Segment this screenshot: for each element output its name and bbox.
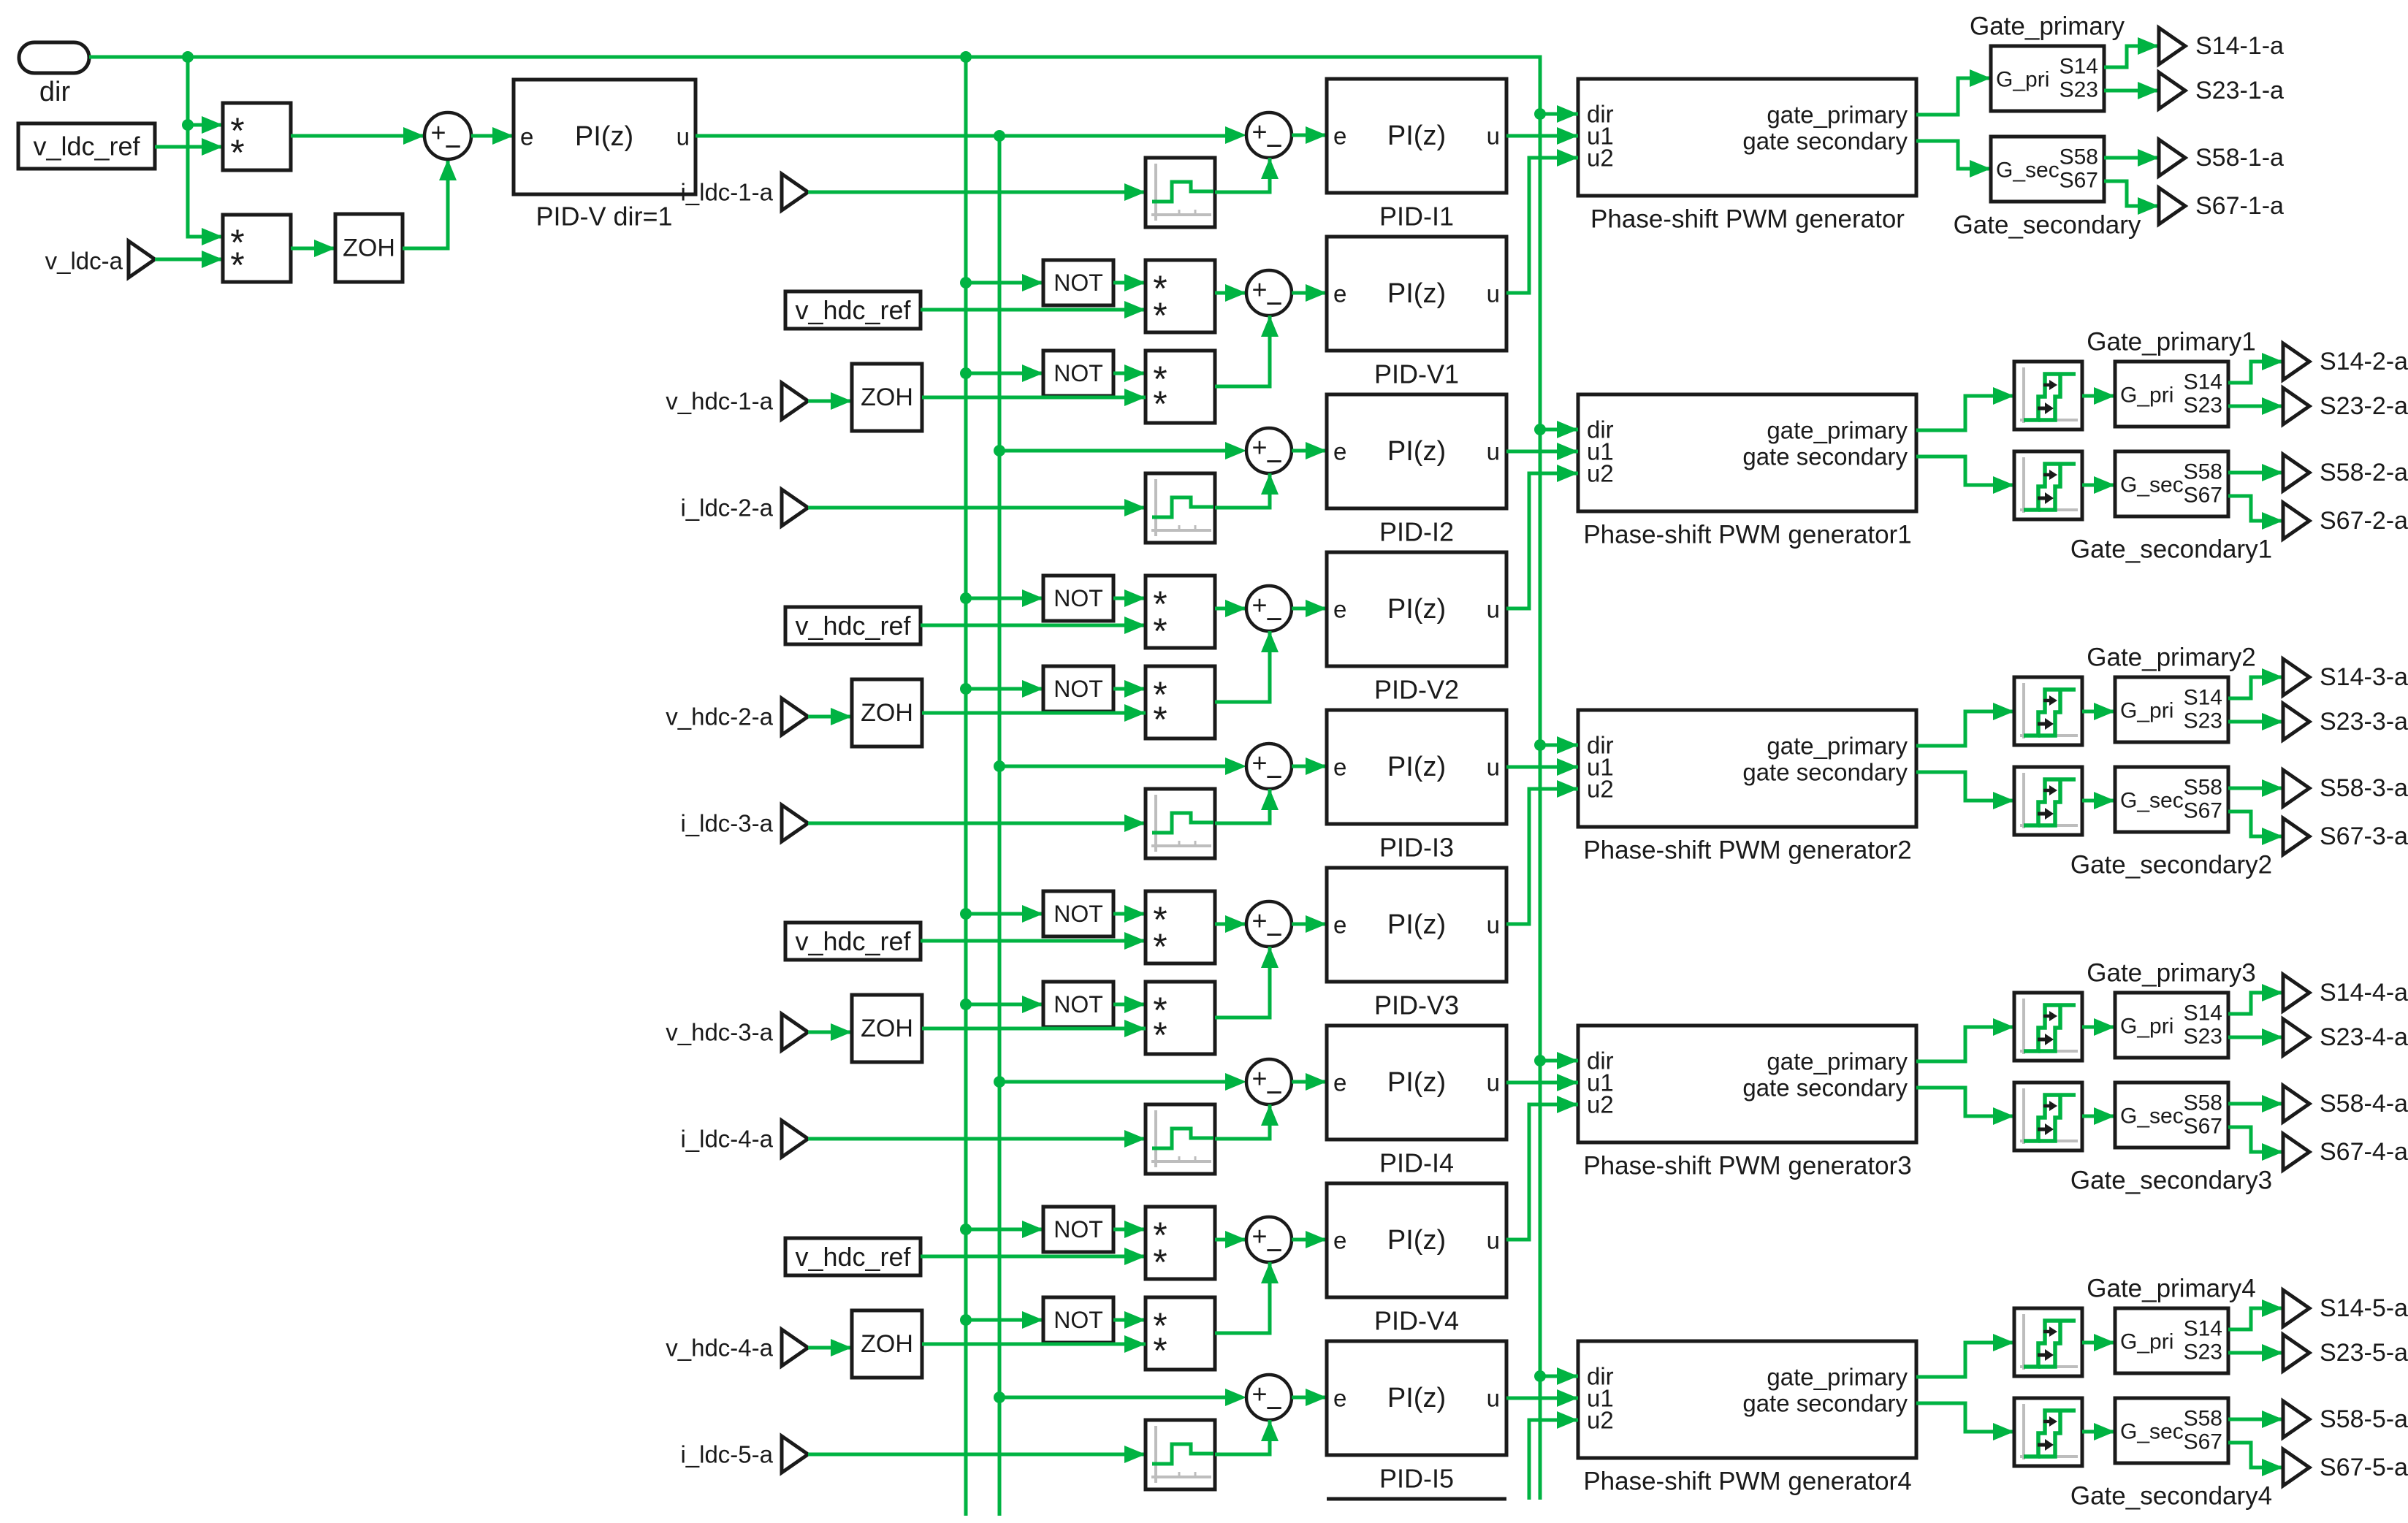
output triangle S14-4-a	[2283, 974, 2309, 1011]
wire sum to PID-V3 e	[1292, 915, 1327, 933]
controller PID-I2 (PI(z))	[1327, 394, 1506, 508]
subsystem Gate_secondary1 (G_sec)	[2115, 451, 2228, 516]
label v_hdc-1-a	[666, 388, 773, 415]
svg-text:*: *	[1153, 699, 1167, 740]
junction u-bus to sum-I4	[994, 1076, 1005, 1088]
svg-text:S67: S67	[2184, 799, 2222, 823]
arrowhead into product 2	[202, 228, 223, 245]
relay block 5a	[2014, 1308, 2082, 1376]
block Phase-shift PWM generator2	[1578, 710, 1916, 827]
svg-text:S23: S23	[2184, 1025, 2222, 1049]
wire productV1b to sum-V1 minus	[1215, 316, 1279, 386]
wire u-bus to sum-I2	[999, 449, 1225, 453]
svg-text:*: *	[1153, 383, 1167, 424]
svg-text:NOT: NOT	[1053, 360, 1103, 386]
label Phase-shift PWM generator2	[1583, 836, 1911, 865]
svg-text:Gate_secondary2: Gate_secondary2	[2070, 851, 2272, 879]
svg-text:G_pri: G_pri	[2120, 699, 2173, 723]
subsystem Gate_secondary3 (G_sec)	[2115, 1083, 2228, 1148]
svg-text:PID-I3: PID-I3	[1379, 833, 1454, 863]
wire relay 3b to G_sec	[2082, 792, 2115, 809]
label PID-I1	[1379, 202, 1454, 232]
svg-text:PID-I2: PID-I2	[1379, 517, 1454, 547]
product block V3a	[1146, 891, 1215, 963]
zero-order hold 4	[852, 1310, 922, 1378]
label Gate_secondary4	[2070, 1482, 2272, 1511]
input triangle v_hdc-2-a	[782, 698, 808, 735]
wire v_hdc_ref to productV3a	[921, 932, 1146, 950]
wire NOT-dir vertical bus	[964, 57, 968, 1516]
wire S14 out 2	[2228, 353, 2283, 383]
output triangle S14-3-a	[2283, 659, 2309, 695]
wire u-bus to sum-I3	[999, 765, 1225, 768]
controller PID-V2 (PI(z))	[1327, 552, 1506, 666]
svg-text:v_ldc_ref: v_ldc_ref	[33, 131, 140, 161]
wire S67 out 1	[2104, 181, 2159, 215]
svg-text:u: u	[1487, 754, 1500, 781]
svg-text:v_hdc_ref: v_hdc_ref	[795, 1242, 911, 1272]
input triangle i_ldc-5-a	[782, 1436, 808, 1473]
svg-text:v_ldc-a: v_ldc-a	[45, 248, 123, 275]
svg-text:−: −	[1265, 1077, 1282, 1109]
label * productV1a bottom	[1153, 295, 1167, 336]
svg-text:e: e	[1333, 596, 1346, 623]
svg-text:gate secondary: gate secondary	[1742, 759, 1908, 786]
svg-text:gate_primary: gate_primary	[1767, 102, 1908, 129]
output triangle S23-2-a	[2283, 388, 2309, 424]
wire gate secondary to relay 5b	[1916, 1403, 2014, 1440]
label S23-3-a	[2320, 708, 2408, 736]
input triangle v_ldc-a	[129, 241, 155, 278]
wire productV1a to sum-V1	[1215, 284, 1246, 302]
label * productV2b bottom	[1153, 699, 1167, 740]
input triangle i_ldc-1-a	[782, 174, 808, 210]
wire step block to sum-I2 minus	[1215, 473, 1279, 508]
wire relay 4b to G_sec	[2082, 1107, 2115, 1125]
subsystem Gate_primary1 (G_pri)	[2115, 362, 2228, 427]
wire ZOH4 to productV4b	[922, 1335, 1146, 1353]
sum for PID-I3	[1246, 744, 1292, 793]
step scope block I4	[1146, 1104, 1215, 1174]
svg-text:Gate_primary3: Gate_primary3	[2087, 959, 2255, 988]
junction u-bus to sum-I3	[994, 760, 1005, 772]
svg-text:Phase-shift PWM generator2: Phase-shift PWM generator2	[1583, 836, 1911, 865]
label Gate_primary	[1970, 12, 2125, 41]
svg-text:S67: S67	[2184, 1430, 2222, 1454]
svg-text:S23-2-a: S23-2-a	[2320, 392, 2408, 420]
svg-text:G_sec: G_sec	[2120, 1104, 2184, 1129]
label PID-I4	[1379, 1148, 1454, 1178]
label S67-1-a	[2195, 192, 2284, 220]
arrowhead into sum-I1	[1225, 126, 1246, 144]
label * in product2 top	[230, 222, 244, 263]
wire S67 out 5	[2228, 1443, 2283, 1476]
svg-text:v_hdc_ref: v_hdc_ref	[795, 611, 911, 641]
svg-text:S67-5-a: S67-5-a	[2320, 1454, 2408, 1481]
junction master u bus tap	[994, 130, 1005, 142]
product block V1a	[1146, 260, 1215, 332]
label * in product2 bottom	[230, 245, 244, 286]
arrowhead into sum-I2	[1225, 442, 1246, 459]
label S58-5-a	[2320, 1405, 2408, 1433]
wire PID-I4 u to Phase-shift PWM generator3 u1	[1506, 1074, 1578, 1091]
svg-text:i_ldc-4-a: i_ldc-4-a	[680, 1126, 773, 1153]
wire PID-V4 u to Phase-shift PWM generator3 u2	[1506, 1096, 1578, 1240]
label * productV1b bottom	[1153, 383, 1167, 424]
arrowhead into sum-I4	[1225, 1073, 1246, 1091]
svg-text:u2: u2	[1587, 776, 1614, 803]
svg-text:v_hdc_ref: v_hdc_ref	[795, 926, 911, 956]
label Gate_secondary	[1954, 211, 2141, 240]
svg-text:Phase-shift PWM generator3: Phase-shift PWM generator3	[1583, 1152, 1911, 1180]
label Gate_primary4	[2087, 1275, 2255, 1303]
label i_ldc-2-a	[680, 495, 773, 522]
label S14-4-a	[2320, 979, 2408, 1007]
svg-text:i_ldc-1-a: i_ldc-1-a	[680, 179, 773, 206]
relay block 5b	[2014, 1398, 2082, 1466]
svg-text:Gate_primary2: Gate_primary2	[2087, 644, 2255, 672]
svg-text:−: −	[1265, 919, 1282, 951]
wire sum to PID-V4 e	[1292, 1231, 1327, 1248]
subsystem Gate_primary4 (G_pri)	[2115, 1308, 2228, 1373]
arrowhead into sum-I5	[1225, 1389, 1246, 1406]
step scope block I5	[1146, 1420, 1215, 1489]
wire gate secondary to relay 3b	[1916, 772, 2014, 809]
svg-text:v_hdc-1-a: v_hdc-1-a	[666, 388, 773, 415]
input triangle v_hdc-3-a	[782, 1014, 808, 1050]
svg-text:S14: S14	[2184, 370, 2222, 394]
label Gate_secondary3	[2070, 1167, 2272, 1195]
wire u-bus to sum-I4	[999, 1080, 1225, 1084]
wire dir-bus to NOT1b	[966, 364, 1043, 382]
label * productV3a top	[1153, 899, 1167, 940]
svg-text:e: e	[1333, 1069, 1346, 1096]
wire relay 5b to G_sec	[2082, 1423, 2115, 1440]
input triangle v_hdc-1-a	[782, 383, 808, 419]
wire S23 out 2	[2228, 397, 2283, 415]
wire productV3a to sum-V3	[1215, 915, 1246, 933]
label S23-1-a	[2195, 77, 2284, 104]
label * productV4b top	[1153, 1305, 1167, 1346]
svg-text:−: −	[1265, 1234, 1282, 1267]
wire gate_primary to relay 3a	[1916, 703, 2014, 746]
wire NOT2a to productV2a	[1113, 589, 1146, 607]
controller PID-V1 (PI(z))	[1327, 237, 1506, 351]
label * productV3a bottom	[1153, 926, 1167, 967]
relay block 4a	[2014, 993, 2082, 1061]
svg-text:NOT: NOT	[1053, 585, 1103, 611]
junction dir-bus to Phase-shift PWM generator1	[1534, 424, 1546, 435]
block Phase-shift PWM generator1	[1578, 394, 1916, 511]
svg-text:S14: S14	[2060, 55, 2098, 79]
junction dir product1 tap	[182, 119, 194, 131]
output triangle S14-1-a	[2159, 28, 2185, 64]
label * productV4b bottom	[1153, 1330, 1167, 1371]
wire product2 to ZOH	[291, 240, 335, 257]
svg-text:Gate_secondary4: Gate_secondary4	[2070, 1482, 2272, 1511]
svg-text:e: e	[1333, 754, 1346, 781]
sum for PID-V1	[1246, 270, 1292, 320]
label Phase-shift PWM generator3	[1583, 1152, 1911, 1180]
label Phase-shift PWM generator4	[1583, 1467, 1911, 1496]
svg-text:PI(z): PI(z)	[1387, 1225, 1446, 1256]
svg-text:S58: S58	[2184, 1407, 2222, 1431]
svg-text:u2: u2	[1587, 460, 1614, 487]
svg-text:gate secondary: gate secondary	[1742, 443, 1908, 470]
label Gate_secondary1	[2070, 535, 2272, 564]
label S14-5-a	[2320, 1294, 2408, 1322]
svg-text:gate_primary: gate_primary	[1767, 1048, 1908, 1075]
wire dir into Phase-shift PWM generator1	[1540, 421, 1578, 438]
product block 1	[223, 103, 291, 170]
wire sum to PID-V e	[471, 127, 514, 145]
wire PID-V5 u to Phase-shift PWM generator4 u2 (cropped)	[1529, 1411, 1578, 1500]
wire i_ldc-3-a to step block	[808, 814, 1146, 832]
wire product1 to sum	[291, 127, 424, 145]
svg-text:*: *	[1153, 611, 1167, 652]
logic NOT 3a	[1043, 891, 1113, 936]
output triangle S23-1-a	[2159, 72, 2185, 109]
svg-text:ZOH: ZOH	[861, 383, 913, 411]
svg-text:NOT: NOT	[1053, 1307, 1103, 1333]
svg-text:e: e	[1333, 438, 1346, 465]
svg-text:*: *	[1153, 1330, 1167, 1371]
svg-text:S23: S23	[2060, 78, 2098, 102]
svg-text:u: u	[1487, 1069, 1500, 1096]
label S67-4-a	[2320, 1138, 2408, 1166]
svg-text:S23-1-a: S23-1-a	[2195, 77, 2284, 104]
product block 2	[223, 215, 291, 282]
label PID-V1	[1374, 359, 1459, 389]
wire S23 out 3	[2228, 713, 2283, 730]
wire dir-bus to NOT3a	[966, 905, 1043, 923]
svg-text:S67-4-a: S67-4-a	[2320, 1138, 2408, 1166]
wire S58 out 3	[2228, 779, 2283, 797]
wire sum to PID-I5 e	[1292, 1389, 1327, 1406]
wire NOT3a to productV3a	[1113, 905, 1146, 923]
svg-text:Phase-shift PWM generator4: Phase-shift PWM generator4	[1583, 1467, 1911, 1496]
svg-text:gate_primary: gate_primary	[1767, 1364, 1908, 1391]
step scope block I2	[1146, 473, 1215, 543]
label PID-I3	[1379, 833, 1454, 863]
product block V4b	[1146, 1297, 1215, 1370]
junction dir/NOT bus	[960, 51, 972, 63]
label * productV4a top	[1153, 1215, 1167, 1256]
wire relay 3a to G_pri	[2082, 703, 2115, 720]
label * productV2a top	[1153, 584, 1167, 625]
label Phase-shift PWM generator	[1590, 205, 1905, 234]
svg-text:ZOH: ZOH	[861, 1330, 913, 1358]
label Gate_primary2	[2087, 644, 2255, 672]
sum for PID-I2	[1246, 428, 1292, 478]
label * productV2a bottom	[1153, 611, 1167, 652]
subsystem Gate_secondary2 (G_sec)	[2115, 767, 2228, 832]
wire i_ldc-4-a to step block	[808, 1130, 1146, 1148]
logic NOT 1b	[1043, 351, 1113, 396]
constant v_ldc_ref	[18, 123, 155, 169]
junction dir-bus to NOT2b	[960, 683, 972, 695]
svg-text:u2: u2	[1587, 145, 1614, 172]
block Phase-shift PWM generator3	[1578, 1026, 1916, 1142]
controller PID-I5 (PI(z))	[1327, 1341, 1506, 1455]
logic NOT 2b	[1043, 666, 1113, 711]
wire v_ldc_ref to product	[155, 138, 223, 156]
wire productV4b to sum-V4 minus	[1215, 1262, 1279, 1333]
junction dir-bus to Phase-shift PWM generator	[1534, 108, 1546, 120]
svg-text:u: u	[1487, 1385, 1500, 1412]
svg-text:u: u	[1487, 596, 1500, 623]
wire S14 out 3	[2228, 668, 2283, 698]
svg-text:e: e	[1333, 1227, 1346, 1254]
sum for PID-V4	[1246, 1217, 1292, 1267]
zero-order hold 2	[852, 679, 922, 747]
label S67-2-a	[2320, 507, 2408, 535]
svg-text:e: e	[1333, 280, 1346, 308]
controller PID-I1 (PI(z))	[1327, 79, 1506, 193]
zero-order hold 1	[852, 364, 922, 431]
svg-text:u: u	[1487, 123, 1500, 150]
output triangle S58-3-a	[2283, 770, 2309, 806]
label * productV4a bottom	[1153, 1242, 1167, 1283]
label * productV1a top	[1153, 268, 1167, 309]
svg-text:S14: S14	[2184, 686, 2222, 710]
svg-text:Gate_secondary: Gate_secondary	[1954, 211, 2141, 240]
svg-text:u: u	[1487, 912, 1500, 939]
svg-text:S14-4-a: S14-4-a	[2320, 979, 2408, 1007]
svg-text:NOT: NOT	[1053, 1216, 1103, 1243]
wire dir-bus to NOT3b	[966, 996, 1043, 1013]
svg-text:v_hdc-4-a: v_hdc-4-a	[666, 1335, 773, 1362]
svg-text:S23: S23	[2184, 709, 2222, 733]
svg-text:gate_primary: gate_primary	[1767, 733, 1908, 760]
wire relay 2a to G_pri	[2082, 387, 2115, 405]
wire S58 out 2	[2228, 464, 2283, 481]
svg-text:G_pri: G_pri	[2120, 1330, 2173, 1354]
svg-text:G_pri: G_pri	[1996, 68, 2049, 92]
input triangle i_ldc-4-a	[782, 1121, 808, 1157]
wire relay 4a to G_pri	[2082, 1018, 2115, 1036]
junction u-bus to sum-I2	[994, 445, 1005, 457]
svg-text:PI(z): PI(z)	[575, 121, 633, 152]
output triangle S58-2-a	[2283, 454, 2309, 491]
wire master u to sum-I1 / bus	[696, 134, 1225, 138]
svg-text:PI(z): PI(z)	[1387, 594, 1446, 625]
label PID-V2	[1374, 675, 1459, 705]
svg-text:S14-1-a: S14-1-a	[2195, 32, 2284, 60]
svg-text:u2: u2	[1587, 1091, 1614, 1118]
wire gate_primary to relay 4a	[1916, 1018, 2014, 1061]
wire NOT4a to productV4a	[1113, 1221, 1146, 1238]
label S23-2-a	[2320, 392, 2408, 420]
constant v_hdc_ref 2	[785, 607, 921, 644]
svg-text:S14-5-a: S14-5-a	[2320, 1294, 2408, 1322]
wire sum to PID-I3 e	[1292, 757, 1327, 775]
relay block 4b	[2014, 1083, 2082, 1150]
output triangle S67-1-a	[2159, 188, 2185, 224]
svg-text:S23-4-a: S23-4-a	[2320, 1023, 2408, 1051]
svg-text:S58: S58	[2184, 1091, 2222, 1115]
svg-text:G_pri: G_pri	[2120, 1015, 2173, 1039]
wire v_hdc-2-a to ZOH2	[808, 708, 852, 725]
wire gate_primary to relay 5a	[1916, 1334, 2014, 1377]
output triangle S23-3-a	[2283, 703, 2309, 740]
wire S67 out 4	[2228, 1127, 2283, 1161]
wire gate secondary to relay 4b	[1916, 1088, 2014, 1125]
wire ZOH2 to productV2b	[922, 704, 1146, 722]
output triangle S14-2-a	[2283, 343, 2309, 380]
svg-text:S58-1-a: S58-1-a	[2195, 144, 2284, 172]
logic NOT 3b	[1043, 982, 1113, 1027]
wire S23 out 5	[2228, 1344, 2283, 1362]
wire S23 out 4	[2228, 1028, 2283, 1046]
wire v_hdc-1-a to ZOH1	[808, 392, 852, 410]
block Phase-shift PWM generator	[1578, 79, 1916, 196]
svg-text:Phase-shift PWM generator1: Phase-shift PWM generator1	[1583, 521, 1911, 549]
svg-text:S58-3-a: S58-3-a	[2320, 774, 2408, 802]
svg-text:gate secondary: gate secondary	[1742, 1075, 1908, 1102]
wire gate_primary to G_pri	[1916, 69, 1991, 115]
svg-text:PI(z): PI(z)	[1387, 909, 1446, 940]
wire u-bus to sum-I5	[999, 1396, 1225, 1400]
wire dir top bus + right drop	[89, 57, 1540, 1500]
svg-text:ZOH: ZOH	[861, 699, 913, 727]
sum for PID-I5	[1246, 1375, 1292, 1424]
svg-text:S58: S58	[2184, 776, 2222, 800]
svg-text:S58-4-a: S58-4-a	[2320, 1090, 2408, 1118]
svg-text:S67: S67	[2184, 484, 2222, 508]
wire productV4a to sum-V4	[1215, 1231, 1246, 1248]
svg-text:u: u	[1487, 280, 1500, 308]
wire PID-V3 u to Phase-shift PWM generator2 u2	[1506, 780, 1578, 924]
junction dir/product drop	[182, 51, 194, 63]
subsystem Gate_primary (G_pri)	[1991, 46, 2104, 111]
logic NOT 4b	[1043, 1297, 1113, 1343]
logic NOT 1a	[1043, 260, 1113, 305]
junction dir-bus to Phase-shift PWM generator3	[1534, 1055, 1546, 1066]
wire dir into Phase-shift PWM generator	[1540, 105, 1578, 123]
signal source dir (capsule)	[19, 42, 89, 73]
zero-order hold master	[335, 214, 403, 282]
wire dir into Phase-shift PWM generator4	[1540, 1367, 1578, 1385]
wire ZOH to sum minus	[403, 159, 457, 248]
wire dir-bus to NOT1a	[966, 274, 1043, 291]
output triangle S58-1-a	[2159, 140, 2185, 176]
wire S67 out 2	[2228, 496, 2283, 530]
sum for PID-I4	[1246, 1059, 1292, 1109]
svg-text:e: e	[1333, 123, 1346, 150]
wire productV2b to sum-V2 minus	[1215, 631, 1279, 702]
svg-text:−: −	[1265, 761, 1282, 793]
svg-text:e: e	[520, 123, 533, 150]
wire dir-bus to NOT4a	[966, 1221, 1043, 1238]
subsystem Gate_primary2 (G_pri)	[2115, 677, 2228, 742]
product block V3b	[1146, 982, 1215, 1054]
label Gate_secondary2	[2070, 851, 2272, 879]
wire step block to sum-I5 minus	[1215, 1420, 1279, 1454]
wire master-u vertical bus	[998, 136, 1002, 1516]
svg-text:PID-V1: PID-V1	[1374, 359, 1459, 389]
logic NOT 4a	[1043, 1207, 1113, 1252]
block Phase-shift PWM generator4	[1578, 1341, 1916, 1458]
junction dir-bus to NOT3a	[960, 908, 972, 920]
relay block 2a	[2014, 362, 2082, 430]
wire PID-V1 u to Phase-shift PWM generator u2	[1506, 149, 1578, 293]
svg-text:S23-5-a: S23-5-a	[2320, 1339, 2408, 1367]
svg-text:i_ldc-3-a: i_ldc-3-a	[680, 810, 773, 837]
svg-text:*: *	[230, 132, 244, 173]
svg-text:*: *	[1153, 1015, 1167, 1056]
output triangle S14-5-a	[2283, 1290, 2309, 1327]
